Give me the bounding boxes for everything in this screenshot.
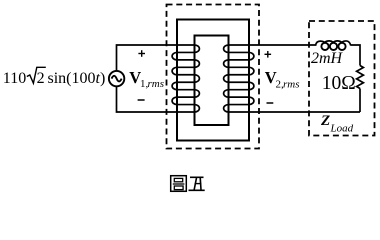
plus terminal V1 [138, 50, 145, 57]
minus terminal V1 [138, 99, 145, 101]
secondary winding crossing connectors [229, 52, 250, 104]
svg-text:Z: Z [320, 113, 330, 129]
svg-text:110: 110 [3, 70, 26, 87]
secondary winding arcs (outer leg, bulge right) [249, 52, 254, 104]
load dashed box [309, 21, 375, 136]
wire: secondary top to load [229, 44, 317, 46]
caption glyph TU (figure) [171, 176, 187, 192]
svg-text:2mH: 2mH [311, 50, 344, 67]
minus terminal V2 [267, 102, 274, 104]
ac voltage source V1 [109, 71, 124, 86]
caption glyph WU (five) [189, 177, 205, 190]
primary winding arcs (inner leg, bulge right) [195, 45, 200, 112]
svg-text:2: 2 [37, 70, 45, 87]
svg-text:10Ω: 10Ω [322, 73, 356, 94]
label V2,rms [265, 68, 300, 91]
svg-text:sin(100t): sin(100t) [48, 70, 106, 87]
transformer core inner rectangle [195, 36, 229, 126]
svg-text:rms: rms [148, 78, 165, 90]
wire: source bottom to transformer primary bottom [117, 86, 195, 112]
svg-text:rms: rms [283, 79, 300, 91]
wire: inductor to resistor [350, 45, 360, 66]
wire: source top to transformer primary [117, 45, 195, 71]
transformer core outer rectangle [177, 20, 249, 141]
resistor R 10ohm zigzag [357, 66, 364, 89]
inductor L 2mH coil top bumps [316, 41, 351, 45]
label V1,rms [129, 68, 164, 90]
svg-text:Load: Load [330, 123, 354, 135]
source label 110sqrt2 sin(100t) [3, 67, 105, 87]
plus terminal V2 [265, 51, 272, 58]
label Z_Load [320, 113, 354, 135]
transformer dashed box [167, 5, 260, 149]
secondary winding arcs (inner leg, bulge left) [224, 45, 229, 112]
inductor L 2mH loop circles [321, 43, 345, 50]
primary winding arcs (outer leg, bulge left) [172, 52, 177, 104]
wire: secondary bottom to load [229, 111, 361, 113]
wire: resistor bottom [359, 89, 361, 113]
primary winding crossing connectors [177, 52, 195, 104]
